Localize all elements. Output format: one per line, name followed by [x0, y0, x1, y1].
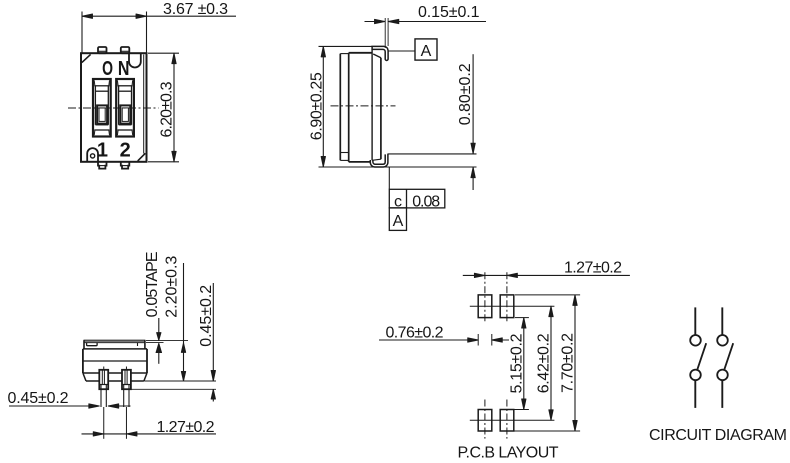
- top-left chamfer: [82, 54, 91, 62]
- svg-text:6.20±0.3: 6.20±0.3: [158, 81, 175, 137]
- switch SW2 : top contact circle: [717, 335, 728, 346]
- dimension 0.80 +/-0.2 : lower segment: [472, 167, 474, 190]
- bottom terminal foot inner: [373, 154, 385, 164]
- switch SW2 : top wire: [721, 307, 723, 334]
- dimension 3.67 +/-0.3 : dimension line: [82, 15, 236, 17]
- dimension 1.27 +/-0.2 : dim line and arrows: [463, 274, 630, 276]
- body bottom edge: [349, 161, 371, 163]
- tape extension lines: [146, 340, 188, 342]
- svg-text:O: O: [102, 56, 113, 79]
- svg-text:A: A: [393, 213, 404, 230]
- switch SW1 : bottom wire: [694, 381, 696, 408]
- switch SW2 : bottom wire: [721, 381, 723, 408]
- dimension 0.15 +/-0.1 : dimension line and arrows: [365, 21, 385, 23]
- slide switch 1 frame: [93, 79, 111, 137]
- slide switch 2 frame: [116, 79, 134, 137]
- dimension 2.20 +/-0.3 : dim line: [183, 263, 185, 381]
- body inner right line: [371, 49, 373, 160]
- bottom terminal pad 1: [98, 162, 107, 169]
- pad top-right: [500, 295, 514, 318]
- bottom terminal pad 2: [121, 162, 130, 169]
- svg-text:P.C.B LAYOUT: P.C.B LAYOUT: [458, 444, 559, 461]
- extension lines for 7.70: [515, 294, 580, 296]
- dimension 0.05 TAPE : dim line and bowtie arrows: [158, 318, 160, 340]
- dimension 6.42 +/-0.2 : dim line: [550, 306, 552, 420]
- bottom-right connector diagonal: [372, 159, 381, 160]
- body bottom line: [83, 372, 147, 374]
- horizontal centerline: [68, 107, 159, 109]
- dimension 0.45 +/-0.2 left : dim line and arrows: [9, 405, 99, 407]
- switch SW1 : top contact circle: [690, 335, 701, 346]
- body divider line: [83, 360, 147, 362]
- dimension 7.70 +/-0.2 : dim line: [574, 295, 576, 431]
- lead 1 (end view): [103, 367, 105, 370]
- dimension 0.80 +/-0.2 : dimension line upper segment: [472, 54, 474, 154]
- foot top surface line: [387, 153, 476, 155]
- svg-text:N: N: [118, 57, 130, 79]
- top terminal clip (gull-wing up): [372, 46, 388, 60]
- body left inner edge: [348, 53, 350, 162]
- svg-text:2.20±0.3: 2.20±0.3: [164, 256, 181, 318]
- actuator slot: [87, 343, 98, 346]
- small vertical detail line: [137, 343, 139, 346]
- slide switch 2 actuator knob: [120, 105, 130, 123]
- lead 2 (end view): [125, 367, 127, 370]
- datum A box: [415, 39, 437, 60]
- svg-text:0.45±0.2: 0.45±0.2: [8, 390, 69, 407]
- switch SW2 : lever: [724, 343, 733, 369]
- horizontal centerline: [331, 105, 396, 107]
- svg-text:0.15±0.1: 0.15±0.1: [418, 4, 480, 21]
- svg-text:3.67 ±0.3: 3.67 ±0.3: [163, 1, 228, 18]
- dimension 5.15 +/-0.2 : dim line: [523, 318, 525, 410]
- bottom terminal foot outer: [370, 154, 388, 167]
- main body top line: [83, 348, 147, 350]
- dimension 3.67 +/-0.3 : extension lines: [81, 12, 83, 53]
- dimension 0.76 +/-0.2 : dim line and arrows: [379, 339, 478, 341]
- switch SW1 : bottom contact circle: [690, 370, 701, 381]
- dimension 0.45 +/-0.2 right : dim line: [212, 283, 214, 381]
- svg-text:0.05TAPE: 0.05TAPE: [144, 251, 161, 317]
- pad centerline horizontal bottom: [470, 419, 555, 421]
- svg-text:0.45±0.2: 0.45±0.2: [198, 285, 215, 347]
- pad top-left: [478, 295, 492, 318]
- dimension 6.90 +/-0.25 : dimension line: [322, 46, 324, 167]
- dimension 1.27 +/-0.2 : dim line and arrows: [82, 433, 217, 435]
- top-right chamfer: [373, 54, 381, 58]
- extension lines right: [144, 380, 216, 382]
- top terminal pad 2: [121, 47, 130, 53]
- pad centerline horizontal top (extends to 6.42 dim): [470, 305, 555, 307]
- switch SW1 : lever: [697, 343, 706, 369]
- bottom-left pin1 dome marker: [87, 148, 98, 161]
- svg-text:2: 2: [120, 139, 131, 161]
- pin1 dot: [91, 154, 95, 158]
- top terminal pad 1: [98, 47, 107, 53]
- svg-text:6.90±0.25: 6.90±0.25: [309, 72, 326, 140]
- top extension line for 6.90: [319, 45, 373, 47]
- pad centerlines vertical bottom: [484, 400, 486, 439]
- datum reference A box: [389, 208, 406, 231]
- svg-text:5.15±0.2: 5.15±0.2: [509, 333, 526, 393]
- switch SW1 : top wire: [694, 307, 696, 334]
- top-left connector: [340, 53, 348, 55]
- svg-text:A: A: [421, 43, 432, 60]
- dimension 6.20 +/-0.3 : extension lines: [148, 52, 179, 54]
- pad bottom-right: [500, 410, 514, 432]
- pad bottom-left: [478, 410, 492, 432]
- slide switch 1 actuator knob: [97, 105, 107, 123]
- bottom-right chamfer: [138, 153, 146, 161]
- body outline of DIP switch front view: [81, 53, 147, 162]
- svg-text:1.27±0.2: 1.27±0.2: [564, 260, 622, 277]
- datum frame leader: [388, 167, 390, 189]
- upper housing section: [83, 340, 85, 349]
- body top edge: [349, 52, 372, 54]
- svg-text:0.08: 0.08: [412, 193, 440, 210]
- seating plane line: [319, 166, 477, 168]
- svg-text:0.80±0.2: 0.80±0.2: [457, 63, 474, 125]
- svg-text:6.42±0.2: 6.42±0.2: [536, 333, 553, 393]
- svg-text:CIRCUIT DIAGRAM: CIRCUIT DIAGRAM: [649, 427, 787, 444]
- pad centerlines vertical top: [484, 272, 486, 323]
- bottom-left connector: [340, 159, 348, 161]
- main body sides: [82, 349, 84, 373]
- svg-text:1: 1: [97, 139, 108, 161]
- datum A leader line: [388, 50, 415, 52]
- dimension 0.76 +/-0.2 : extension ticks: [477, 334, 479, 346]
- 0.15 extension lines (terminal faces projected up): [384, 18, 386, 48]
- top-right index notch: [129, 54, 141, 68]
- body left outer edge: [339, 54, 341, 161]
- tape seal strip: [84, 340, 145, 343]
- svg-text:7.70±0.2: 7.70±0.2: [560, 333, 577, 393]
- svg-text:1.27±0.2: 1.27±0.2: [157, 419, 215, 436]
- bottom-left tab line: [341, 152, 349, 154]
- svg-text:0.76±0.2: 0.76±0.2: [386, 325, 444, 342]
- inner right edge line: [143, 55, 145, 154]
- body right outer edge: [380, 58, 382, 159]
- switch SW2 : bottom contact circle: [717, 370, 728, 381]
- extension lines for 5.15: [515, 317, 529, 319]
- bottom taper: [83, 373, 86, 381]
- dimension 6.20 +/-0.3 : dimension line: [173, 53, 175, 162]
- feature control frame c 0.08: [389, 189, 445, 208]
